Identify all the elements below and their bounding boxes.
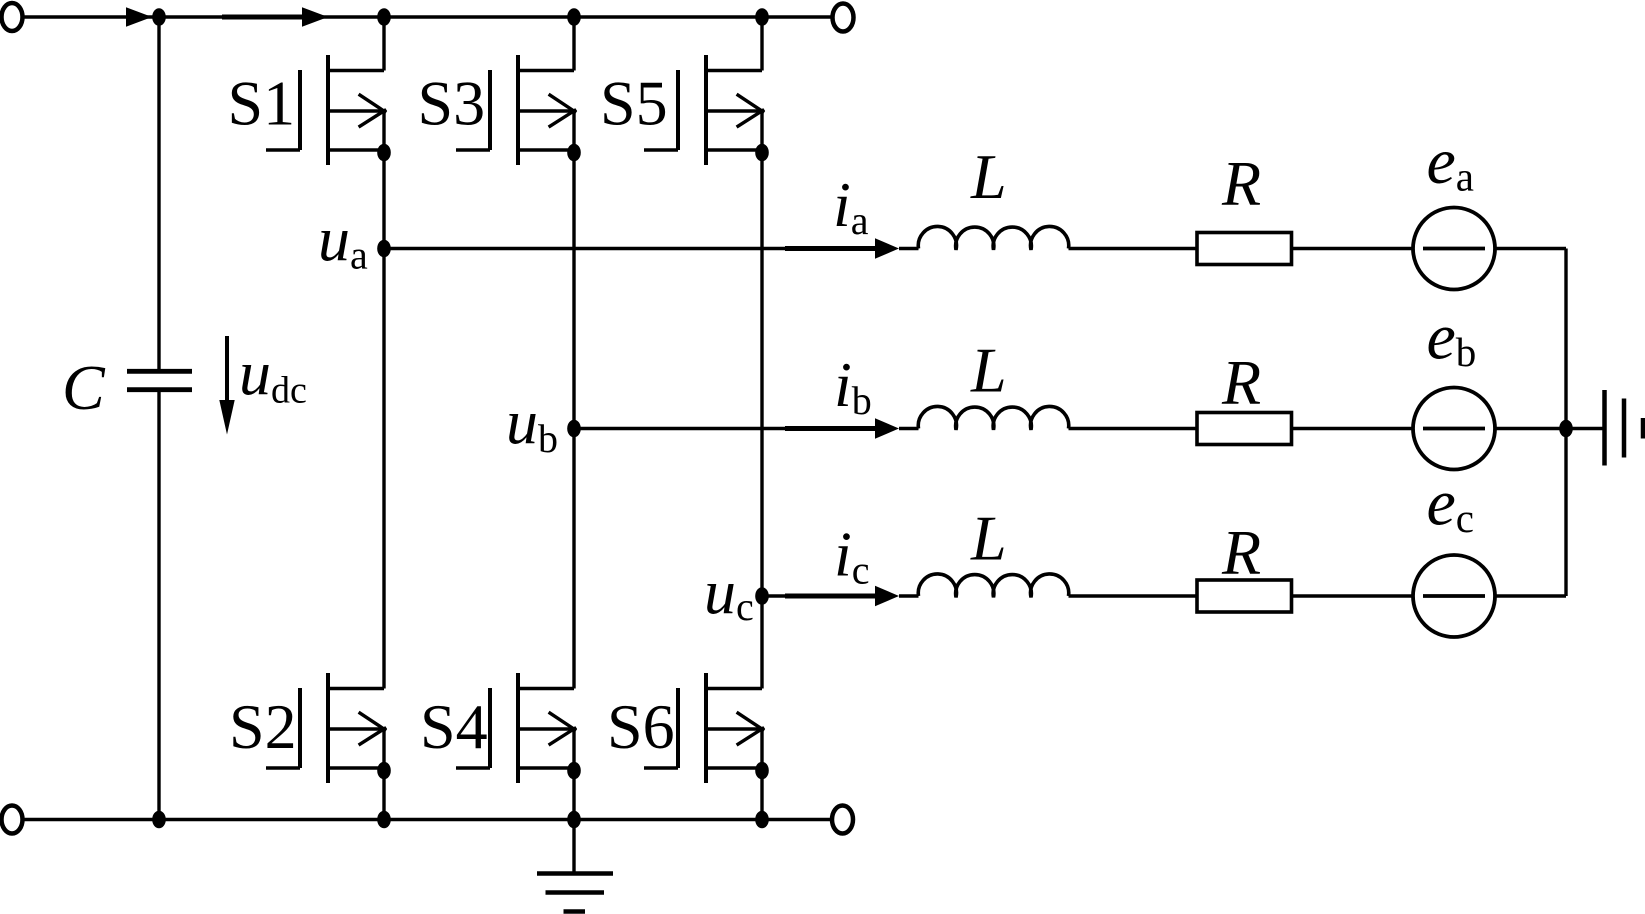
- svg-text:ia: ia: [833, 169, 869, 243]
- inductor L phase b: [918, 406, 1068, 429]
- svg-text:R: R: [1221, 517, 1261, 588]
- svg-text:ea: ea: [1427, 125, 1475, 200]
- transistor S4: [456, 673, 581, 783]
- wire leg2 middle (S3 source to S4 drain through node ub): [572, 111, 575, 689]
- transistor S6: [644, 673, 769, 783]
- wire leg1 middle (S1 source to S2 drain through node ua): [382, 111, 385, 689]
- arrow on top rail (second, with thick shaft): [222, 15, 303, 20]
- wire phase c resistor to source: [1292, 594, 1414, 597]
- svg-text:L: L: [970, 503, 1007, 574]
- svg-text:ib: ib: [834, 349, 872, 423]
- arrow current ic: [785, 594, 877, 599]
- svg-text:R: R: [1221, 148, 1261, 219]
- svg-text:S2: S2: [229, 691, 297, 762]
- resistor R phase c: [1197, 580, 1292, 612]
- wire phase b resistor to source: [1292, 427, 1414, 430]
- wire phase a inductor to resistor: [1069, 247, 1198, 250]
- resistor R phase a: [1197, 233, 1292, 265]
- node N (right bus): [1559, 420, 1573, 438]
- resistor R phase b: [1197, 413, 1292, 445]
- svg-text:uc: uc: [704, 557, 754, 630]
- svg-text:ic: ic: [834, 519, 870, 593]
- wire phase c source to right bus: [1495, 594, 1566, 597]
- wire phase c from node uc: [762, 594, 877, 597]
- wire leg2 bottom (S4 source to rail): [572, 729, 575, 820]
- node bottom rail / leg1: [377, 811, 391, 829]
- transistor S2: [266, 673, 391, 783]
- arrow on top rail (left): [126, 7, 152, 26]
- arrow udc: [225, 336, 229, 402]
- transistor S1: [266, 55, 391, 165]
- svg-text:S4: S4: [420, 691, 488, 762]
- transistor S5: [644, 55, 769, 165]
- source ec: [1413, 555, 1495, 637]
- arrow current ib: [785, 426, 877, 431]
- node top rail / leg2: [567, 8, 581, 26]
- wire phase b from node ub: [574, 427, 877, 430]
- inductor L phase a: [918, 226, 1068, 249]
- ground (bottom, below leg2): [537, 874, 613, 912]
- arrow current ia: [785, 246, 877, 251]
- wire phase c arrow to inductor: [899, 594, 919, 597]
- svg-text:L: L: [970, 335, 1007, 406]
- svg-text:eb: eb: [1427, 301, 1477, 376]
- node uc: [755, 587, 769, 605]
- wire leg3 bottom (S6 source to rail): [760, 729, 763, 820]
- svg-text:udc: udc: [239, 338, 307, 412]
- svg-text:ua: ua: [318, 204, 368, 278]
- wire leg2 drain S3: [572, 17, 575, 71]
- wire phase b source to node N: [1495, 427, 1566, 430]
- svg-text:ub: ub: [506, 386, 558, 461]
- wire phase a resistor to source: [1292, 247, 1414, 250]
- node top rail / dc-link: [152, 8, 166, 26]
- wire top dc rail: [23, 15, 833, 18]
- svg-text:ec: ec: [1427, 467, 1475, 542]
- wire right neutral bus vertical: [1564, 249, 1567, 597]
- wire leg1 drain S1: [382, 17, 385, 71]
- node ua: [377, 240, 391, 258]
- wire bottom dc rail: [23, 818, 833, 821]
- svg-text:L: L: [970, 141, 1007, 212]
- wire dc-link vertical upper: [157, 17, 160, 371]
- source ea: [1413, 208, 1495, 290]
- wire leg1 bottom (S2 source to rail): [382, 729, 385, 820]
- wire phase c inductor to resistor: [1069, 594, 1198, 597]
- terminal bottom-right: [832, 806, 853, 834]
- node top rail / leg1: [377, 8, 391, 26]
- capacitor C plates: [127, 371, 192, 389]
- source eb: [1413, 388, 1495, 470]
- svg-text:S5: S5: [600, 68, 668, 139]
- svg-text:S6: S6: [607, 691, 675, 762]
- wire node N to right ground: [1566, 427, 1604, 430]
- wire phase a source to right bus: [1495, 247, 1566, 250]
- node top rail / leg3: [755, 8, 769, 26]
- terminal top-left: [2, 3, 23, 31]
- inductor L phase c: [918, 574, 1068, 597]
- transistor S3: [456, 55, 581, 165]
- terminal top-right: [833, 4, 854, 32]
- svg-text:S3: S3: [418, 68, 486, 139]
- svg-text:C: C: [62, 352, 106, 423]
- node bottom rail / leg2: [567, 811, 581, 829]
- node bottom rail / dc-link: [152, 811, 166, 829]
- wire phase a arrow to inductor: [899, 247, 919, 250]
- svg-text:S1: S1: [228, 68, 296, 139]
- terminal bottom-left: [2, 806, 23, 834]
- wire phase a from node ua: [384, 247, 877, 250]
- wire leg3 middle (S5 source to S6 drain through node uc): [760, 111, 763, 689]
- wire dc-link vertical lower: [157, 390, 160, 820]
- wire phase b arrow to inductor: [899, 427, 919, 430]
- node ub: [567, 420, 581, 438]
- wire phase b inductor to resistor: [1069, 427, 1198, 430]
- wire leg3 drain S5: [760, 17, 763, 71]
- ground (right, rotated): [1605, 390, 1644, 466]
- wire ground stem below leg2: [572, 820, 575, 874]
- node bottom rail / leg3: [755, 811, 769, 829]
- svg-text:R: R: [1221, 347, 1261, 418]
